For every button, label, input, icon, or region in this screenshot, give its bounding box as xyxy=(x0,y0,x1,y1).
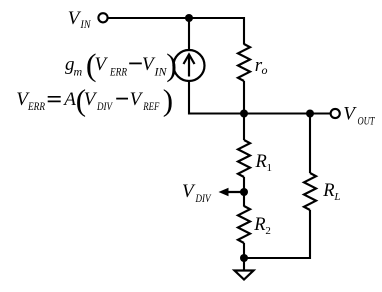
resistor RL xyxy=(304,173,316,210)
svg-text:2: 2 xyxy=(265,225,271,237)
svg-text:L: L xyxy=(333,191,340,203)
resistor R1 xyxy=(238,140,250,177)
svg-text:ERR: ERR xyxy=(27,99,45,113)
svg-text:m: m xyxy=(74,64,83,78)
wire RL bottom to bottom rail and across to ground node xyxy=(244,210,310,258)
svg-text:IN: IN xyxy=(80,17,92,31)
wire current source bottom to mid rail and across to Vout xyxy=(189,81,330,114)
svg-text:ERR: ERR xyxy=(109,64,127,78)
wire Vout node down to RL xyxy=(309,114,311,174)
node Vdiv junction xyxy=(240,188,248,196)
svg-text:V: V xyxy=(130,89,144,110)
terminal Vout xyxy=(331,109,340,118)
svg-text:): ) xyxy=(163,82,173,117)
wire R1 bottom to Vdiv node xyxy=(243,177,245,192)
junction mid rail right xyxy=(306,110,314,118)
current source U1 xyxy=(174,50,205,81)
svg-text:V: V xyxy=(343,104,357,125)
node Vdiv arrow xyxy=(227,191,244,193)
svg-text:DIV: DIV xyxy=(96,99,113,113)
wire from top rail down to current source xyxy=(188,18,190,50)
junction top rail xyxy=(185,14,193,22)
svg-text:V: V xyxy=(84,89,98,110)
wire top rail from Vin terminal to ro corner xyxy=(108,18,244,45)
svg-text:): ) xyxy=(166,46,177,82)
svg-text:o: o xyxy=(262,63,268,77)
svg-text:R: R xyxy=(322,181,334,201)
wire Vdiv node to R2 xyxy=(243,192,245,207)
svg-text:1: 1 xyxy=(267,162,273,174)
current source arrow xyxy=(184,55,195,77)
svg-text:A: A xyxy=(62,89,76,110)
junction bottom rail xyxy=(240,254,248,262)
wire mid rail down to R1 xyxy=(243,114,245,141)
svg-text:V: V xyxy=(95,54,109,75)
svg-text:V: V xyxy=(182,181,196,202)
terminal Vin xyxy=(98,13,107,22)
svg-text:R: R xyxy=(255,152,267,172)
svg-text:DIV: DIV xyxy=(195,191,212,205)
ground xyxy=(235,271,254,280)
junction mid rail left xyxy=(240,110,248,118)
svg-text:REF: REF xyxy=(143,99,160,113)
wire R2 bottom to ground node xyxy=(243,243,245,258)
resistor ro xyxy=(238,44,250,81)
svg-text:OUT: OUT xyxy=(358,114,376,128)
resistor R2 xyxy=(238,206,250,243)
wire ground stub xyxy=(243,258,245,270)
svg-text:R: R xyxy=(253,215,265,235)
wire ro bottom to mid rail xyxy=(243,81,245,114)
